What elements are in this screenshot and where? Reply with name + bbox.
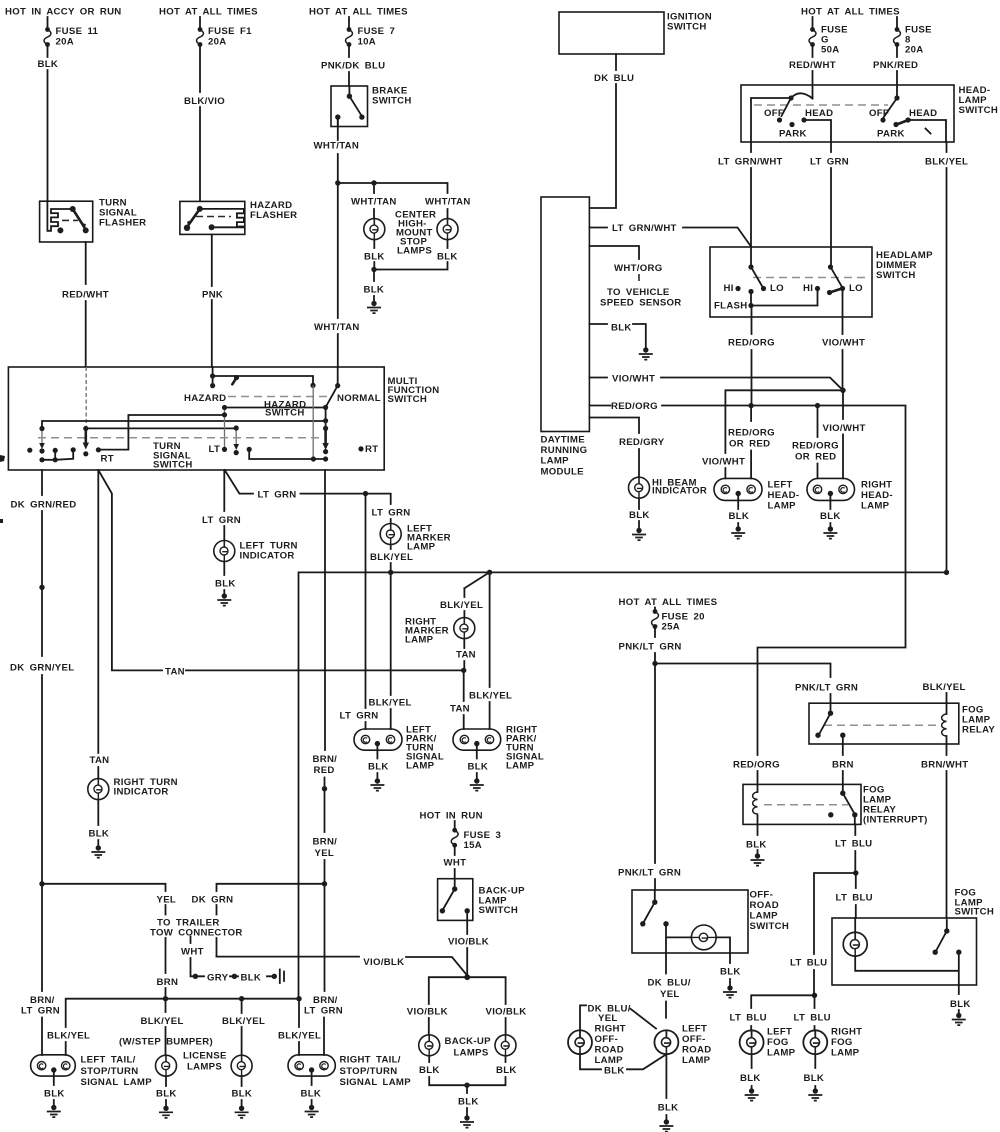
svg-text:WHT: WHT [181, 947, 204, 958]
svg-text:HAZARD: HAZARD [184, 393, 226, 404]
svg-text:RELAY: RELAY [962, 725, 995, 736]
svg-text:STOP/TURN: STOP/TURN [340, 1066, 398, 1077]
svg-text:TO VEHICLE: TO VEHICLE [607, 287, 670, 298]
svg-text:HOT IN RUN: HOT IN RUN [420, 811, 483, 822]
svg-text:BLK: BLK [364, 285, 385, 296]
svg-text:BLK: BLK [301, 1089, 322, 1100]
svg-text:VIO/BLK: VIO/BLK [407, 1007, 448, 1018]
svg-text:FUSE 11: FUSE 11 [56, 26, 99, 37]
svg-text:VIO/WHT: VIO/WHT [612, 374, 655, 385]
svg-text:HI: HI [803, 283, 813, 294]
svg-text:FUSE 7: FUSE 7 [358, 26, 396, 37]
svg-text:LEFT TAIL/: LEFT TAIL/ [81, 1055, 136, 1066]
svg-text:SWITCH: SWITCH [265, 408, 305, 419]
svg-text:BLK/YEL: BLK/YEL [278, 1031, 321, 1042]
svg-text:LT BLU: LT BLU [835, 839, 872, 850]
svg-text:SIGNAL LAMP: SIGNAL LAMP [340, 1077, 412, 1088]
svg-text:TOW CONNECTOR: TOW CONNECTOR [150, 928, 243, 939]
svg-text:15A: 15A [464, 840, 483, 851]
svg-text:DK GRN/YEL: DK GRN/YEL [10, 663, 74, 674]
svg-text:RIGHT: RIGHT [595, 1024, 626, 1035]
svg-text:BLK/YEL: BLK/YEL [923, 682, 966, 693]
svg-text:WHT/TAN: WHT/TAN [314, 141, 360, 152]
svg-text:RED/ORG: RED/ORG [728, 338, 775, 349]
svg-text:BRN/: BRN/ [313, 837, 338, 848]
svg-text:LT GRN: LT GRN [258, 490, 297, 501]
svg-text:LAMPS: LAMPS [187, 1062, 222, 1073]
svg-text:BRN/WHT: BRN/WHT [921, 760, 968, 771]
svg-text:SWITCH: SWITCH [750, 921, 790, 932]
svg-text:FOG: FOG [767, 1037, 789, 1048]
svg-text:LT GRN: LT GRN [340, 711, 379, 722]
svg-text:PNK: PNK [202, 290, 223, 301]
svg-text:BLK: BLK [804, 1073, 825, 1084]
svg-text:TAN: TAN [165, 667, 185, 678]
svg-text:VIO/BLK: VIO/BLK [363, 957, 404, 968]
svg-text:YEL: YEL [598, 1013, 618, 1024]
svg-text:OFF-: OFF- [595, 1034, 619, 1045]
svg-text:RIGHT TAIL/: RIGHT TAIL/ [340, 1055, 401, 1066]
svg-text:LO: LO [849, 283, 863, 294]
svg-text:BLK: BLK [468, 762, 489, 773]
svg-text:BLK: BLK [156, 1089, 177, 1100]
svg-text:LAMP: LAMP [768, 501, 797, 512]
svg-text:LAMPS: LAMPS [397, 246, 432, 257]
svg-text:TAN: TAN [450, 704, 470, 715]
svg-text:BLK/YEL: BLK/YEL [925, 157, 968, 168]
svg-text:BLK: BLK [658, 1103, 679, 1114]
svg-text:SPEED SENSOR: SPEED SENSOR [600, 298, 682, 309]
svg-text:ROAD: ROAD [750, 900, 779, 911]
svg-text:INDICATOR: INDICATOR [240, 551, 295, 562]
svg-text:HEAD: HEAD [909, 108, 937, 119]
svg-text:WHT/TAN: WHT/TAN [314, 322, 360, 333]
svg-text:LT BLU: LT BLU [836, 893, 873, 904]
svg-text:HOT AT ALL TIMES: HOT AT ALL TIMES [801, 7, 900, 18]
svg-text:FLASH: FLASH [714, 301, 747, 312]
svg-text:DK GRN: DK GRN [192, 895, 234, 906]
svg-text:(W/STEP BUMPER): (W/STEP BUMPER) [119, 1037, 213, 1048]
svg-text:LAMP: LAMP [506, 761, 535, 772]
svg-text:FOG: FOG [831, 1037, 853, 1048]
svg-text:LAMP: LAMP [682, 1055, 711, 1066]
svg-text:OFF: OFF [764, 108, 784, 119]
svg-text:BLK: BLK [241, 973, 262, 984]
svg-text:FLASHER: FLASHER [250, 210, 297, 221]
svg-text:WHT: WHT [444, 858, 467, 869]
svg-text:BLK: BLK [89, 829, 110, 840]
svg-text:RED: RED [314, 765, 335, 776]
svg-text:LT GRN: LT GRN [21, 1006, 60, 1017]
svg-text:BLK/YEL: BLK/YEL [47, 1031, 90, 1042]
svg-text:25A: 25A [662, 622, 681, 633]
svg-text:SWITCH: SWITCH [479, 905, 519, 916]
svg-text:BRN/: BRN/ [313, 995, 338, 1006]
svg-text:INDICATOR: INDICATOR [114, 787, 169, 798]
svg-text:20A: 20A [208, 37, 227, 48]
svg-text:HOT AT ALL TIMES: HOT AT ALL TIMES [309, 7, 408, 18]
svg-text:SWITCH: SWITCH [388, 394, 428, 405]
svg-text:LEFT: LEFT [682, 1024, 707, 1035]
svg-text:SWITCH: SWITCH [955, 907, 995, 918]
svg-text:LAMP: LAMP [406, 761, 435, 772]
svg-text:HEAD-: HEAD- [768, 490, 800, 501]
svg-text:RT: RT [365, 444, 378, 455]
svg-text:RED/ORG: RED/ORG [733, 760, 780, 771]
svg-text:RIGHT: RIGHT [861, 480, 892, 491]
svg-text:HI: HI [724, 283, 734, 294]
svg-text:LT BLU: LT BLU [730, 1013, 767, 1024]
svg-text:PNK/DK BLU: PNK/DK BLU [321, 61, 385, 72]
svg-text:BLK: BLK [729, 511, 750, 522]
svg-text:LT GRN: LT GRN [304, 1006, 343, 1017]
svg-text:WHT/TAN: WHT/TAN [425, 197, 471, 208]
svg-text:LAMP: LAMP [541, 456, 570, 467]
svg-text:BLK: BLK [950, 999, 971, 1010]
svg-text:LAMP: LAMP [767, 1048, 796, 1059]
svg-text:STOP/TURN: STOP/TURN [81, 1066, 139, 1077]
svg-text:DAYTIME: DAYTIME [541, 435, 586, 446]
svg-text:WHT/ORG: WHT/ORG [614, 263, 662, 274]
svg-text:BLK: BLK [629, 510, 650, 521]
svg-text:50A: 50A [821, 45, 840, 56]
svg-text:PNK/LT GRN: PNK/LT GRN [619, 642, 682, 653]
svg-text:BLK: BLK [232, 1089, 253, 1100]
svg-text:BRN/: BRN/ [313, 754, 338, 765]
svg-text:BLK: BLK [215, 579, 236, 590]
svg-text:LICENSE: LICENSE [183, 1051, 227, 1062]
svg-text:RED/WHT: RED/WHT [62, 290, 109, 301]
svg-text:SWITCH: SWITCH [876, 270, 916, 281]
svg-text:BLK: BLK [437, 252, 458, 263]
svg-text:BLK: BLK [820, 511, 841, 522]
svg-text:BRN: BRN [157, 977, 179, 988]
svg-text:BLK: BLK [740, 1073, 761, 1084]
svg-text:FLASHER: FLASHER [99, 218, 146, 229]
svg-text:LT GRN: LT GRN [202, 515, 241, 526]
svg-text:LAMP: LAMP [405, 635, 434, 646]
svg-text:BLK: BLK [458, 1097, 479, 1108]
svg-text:10A: 10A [358, 37, 377, 48]
svg-text:OFF: OFF [869, 108, 889, 119]
svg-text:BLK: BLK [38, 59, 59, 70]
svg-text:SWITCH: SWITCH [153, 460, 193, 471]
svg-text:GRY: GRY [207, 973, 229, 984]
svg-text:RED/ORG: RED/ORG [728, 428, 775, 439]
svg-text:TAN: TAN [456, 650, 476, 661]
svg-text:BRN/: BRN/ [30, 995, 55, 1006]
svg-text:BRN: BRN [832, 760, 854, 771]
svg-text:VIO/WHT: VIO/WHT [702, 457, 745, 468]
svg-text:FUSE F1: FUSE F1 [208, 26, 252, 37]
svg-text:20A: 20A [56, 37, 75, 48]
svg-text:ROAD: ROAD [682, 1045, 711, 1056]
svg-text:BLK: BLK [746, 840, 767, 851]
svg-text:BLK/YEL: BLK/YEL [469, 691, 512, 702]
svg-text:LAMP: LAMP [750, 911, 779, 922]
svg-text:VIO/WHT: VIO/WHT [823, 423, 866, 434]
svg-text:LEFT: LEFT [768, 480, 793, 491]
svg-text:BLK: BLK [720, 967, 741, 978]
svg-text:MODULE: MODULE [541, 467, 585, 478]
svg-text:HOT IN ACCY OR RUN: HOT IN ACCY OR RUN [5, 7, 122, 18]
svg-text:LT BLU: LT BLU [790, 958, 827, 969]
svg-text:(INTERRUPT): (INTERRUPT) [863, 815, 928, 826]
svg-text:BLK: BLK [604, 1066, 625, 1077]
svg-text:RED/ORG: RED/ORG [611, 401, 658, 412]
svg-text:HEAD-: HEAD- [861, 490, 893, 501]
svg-text:20A: 20A [905, 45, 924, 56]
svg-text:VIO/WHT: VIO/WHT [822, 338, 865, 349]
svg-text:INDICATOR: INDICATOR [652, 486, 707, 497]
svg-text:BLK/YEL: BLK/YEL [440, 600, 483, 611]
svg-text:BLK: BLK [368, 762, 389, 773]
svg-text:OFF-: OFF- [750, 890, 774, 901]
svg-text:SIGNAL LAMP: SIGNAL LAMP [81, 1077, 153, 1088]
svg-text:LAMPS: LAMPS [454, 1048, 489, 1059]
svg-text:OR RED: OR RED [729, 439, 770, 450]
svg-text:SWITCH: SWITCH [372, 96, 412, 107]
svg-text:RT: RT [101, 454, 114, 465]
svg-text:DK BLU/: DK BLU/ [648, 978, 691, 989]
svg-text:VIO/BLK: VIO/BLK [486, 1007, 527, 1018]
svg-text:LO: LO [770, 283, 784, 294]
svg-text:LEFT: LEFT [767, 1027, 792, 1038]
svg-text:PNK/RED: PNK/RED [873, 60, 918, 71]
svg-text:BLK/YEL: BLK/YEL [222, 1016, 265, 1027]
svg-text:RED/GRY: RED/GRY [619, 437, 665, 448]
svg-text:LAMP: LAMP [861, 501, 890, 512]
svg-text:DK GRN/RED: DK GRN/RED [11, 500, 77, 511]
svg-text:OFF-: OFF- [682, 1034, 706, 1045]
svg-text:BLK: BLK [496, 1065, 517, 1076]
svg-text:DK BLU: DK BLU [594, 73, 634, 84]
svg-text:SWITCH: SWITCH [667, 22, 707, 33]
svg-text:LT GRN/WHT: LT GRN/WHT [612, 223, 677, 234]
svg-text:HOT AT ALL TIMES: HOT AT ALL TIMES [619, 597, 718, 608]
svg-text:LAMP: LAMP [595, 1055, 624, 1066]
svg-text:LT: LT [209, 444, 221, 455]
svg-text:OR RED: OR RED [795, 452, 836, 463]
svg-text:BLK/YEL: BLK/YEL [141, 1016, 184, 1027]
svg-text:LT GRN/WHT: LT GRN/WHT [718, 157, 783, 168]
svg-text:PNK/LT GRN: PNK/LT GRN [795, 683, 858, 694]
svg-text:TAN: TAN [90, 755, 110, 766]
svg-text:HEAD: HEAD [805, 108, 833, 119]
svg-text:BLK: BLK [419, 1065, 440, 1076]
svg-text:RED/WHT: RED/WHT [789, 60, 836, 71]
svg-text:YEL: YEL [660, 989, 680, 1000]
svg-text:LAMP: LAMP [831, 1048, 860, 1059]
svg-text:RUNNING: RUNNING [541, 445, 588, 456]
svg-text:YEL: YEL [157, 895, 177, 906]
svg-text:YEL: YEL [315, 848, 335, 859]
svg-text:LT GRN: LT GRN [372, 508, 411, 519]
svg-text:NORMAL: NORMAL [337, 393, 381, 404]
svg-text:RIGHT: RIGHT [831, 1027, 862, 1038]
svg-text:SWITCH: SWITCH [959, 105, 999, 116]
svg-text:ROAD: ROAD [595, 1045, 624, 1056]
svg-text:RED/ORG: RED/ORG [792, 441, 839, 452]
svg-text:HOT AT ALL TIMES: HOT AT ALL TIMES [159, 7, 258, 18]
svg-text:PARK: PARK [877, 129, 905, 140]
svg-text:BLK: BLK [364, 252, 385, 263]
svg-text:PARK: PARK [779, 129, 807, 140]
svg-text:BLK/YEL: BLK/YEL [369, 698, 412, 709]
svg-text:WHT/TAN: WHT/TAN [351, 197, 397, 208]
svg-text:LT GRN: LT GRN [810, 157, 849, 168]
svg-text:BLK/VIO: BLK/VIO [184, 96, 225, 107]
svg-text:VIO/BLK: VIO/BLK [448, 937, 489, 948]
svg-text:LAMP: LAMP [407, 542, 436, 553]
svg-text:BLK: BLK [44, 1089, 65, 1100]
svg-text:PNK/LT GRN: PNK/LT GRN [618, 868, 681, 879]
svg-text:BACK-UP: BACK-UP [445, 1036, 492, 1047]
svg-text:BLK: BLK [611, 323, 632, 334]
svg-text:LT BLU: LT BLU [794, 1013, 831, 1024]
svg-text:BLK/YEL: BLK/YEL [370, 552, 413, 563]
